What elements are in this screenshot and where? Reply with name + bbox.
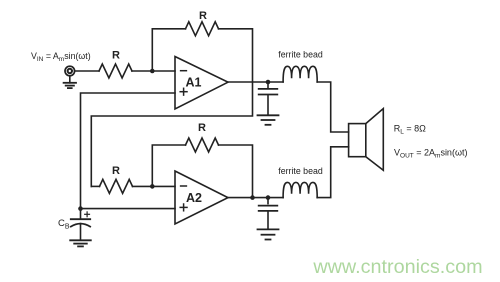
svg-text:R: R xyxy=(199,10,207,22)
svg-text:R: R xyxy=(198,122,206,134)
svg-text:ferrite bead: ferrite bead xyxy=(278,166,323,176)
svg-text:A2: A2 xyxy=(186,191,202,205)
svg-text:www.cntronics.com: www.cntronics.com xyxy=(312,256,482,278)
svg-text:R: R xyxy=(112,50,120,62)
svg-text:ferrite bead: ferrite bead xyxy=(278,50,323,60)
svg-text:A1: A1 xyxy=(186,76,202,90)
svg-text:R: R xyxy=(112,165,120,177)
